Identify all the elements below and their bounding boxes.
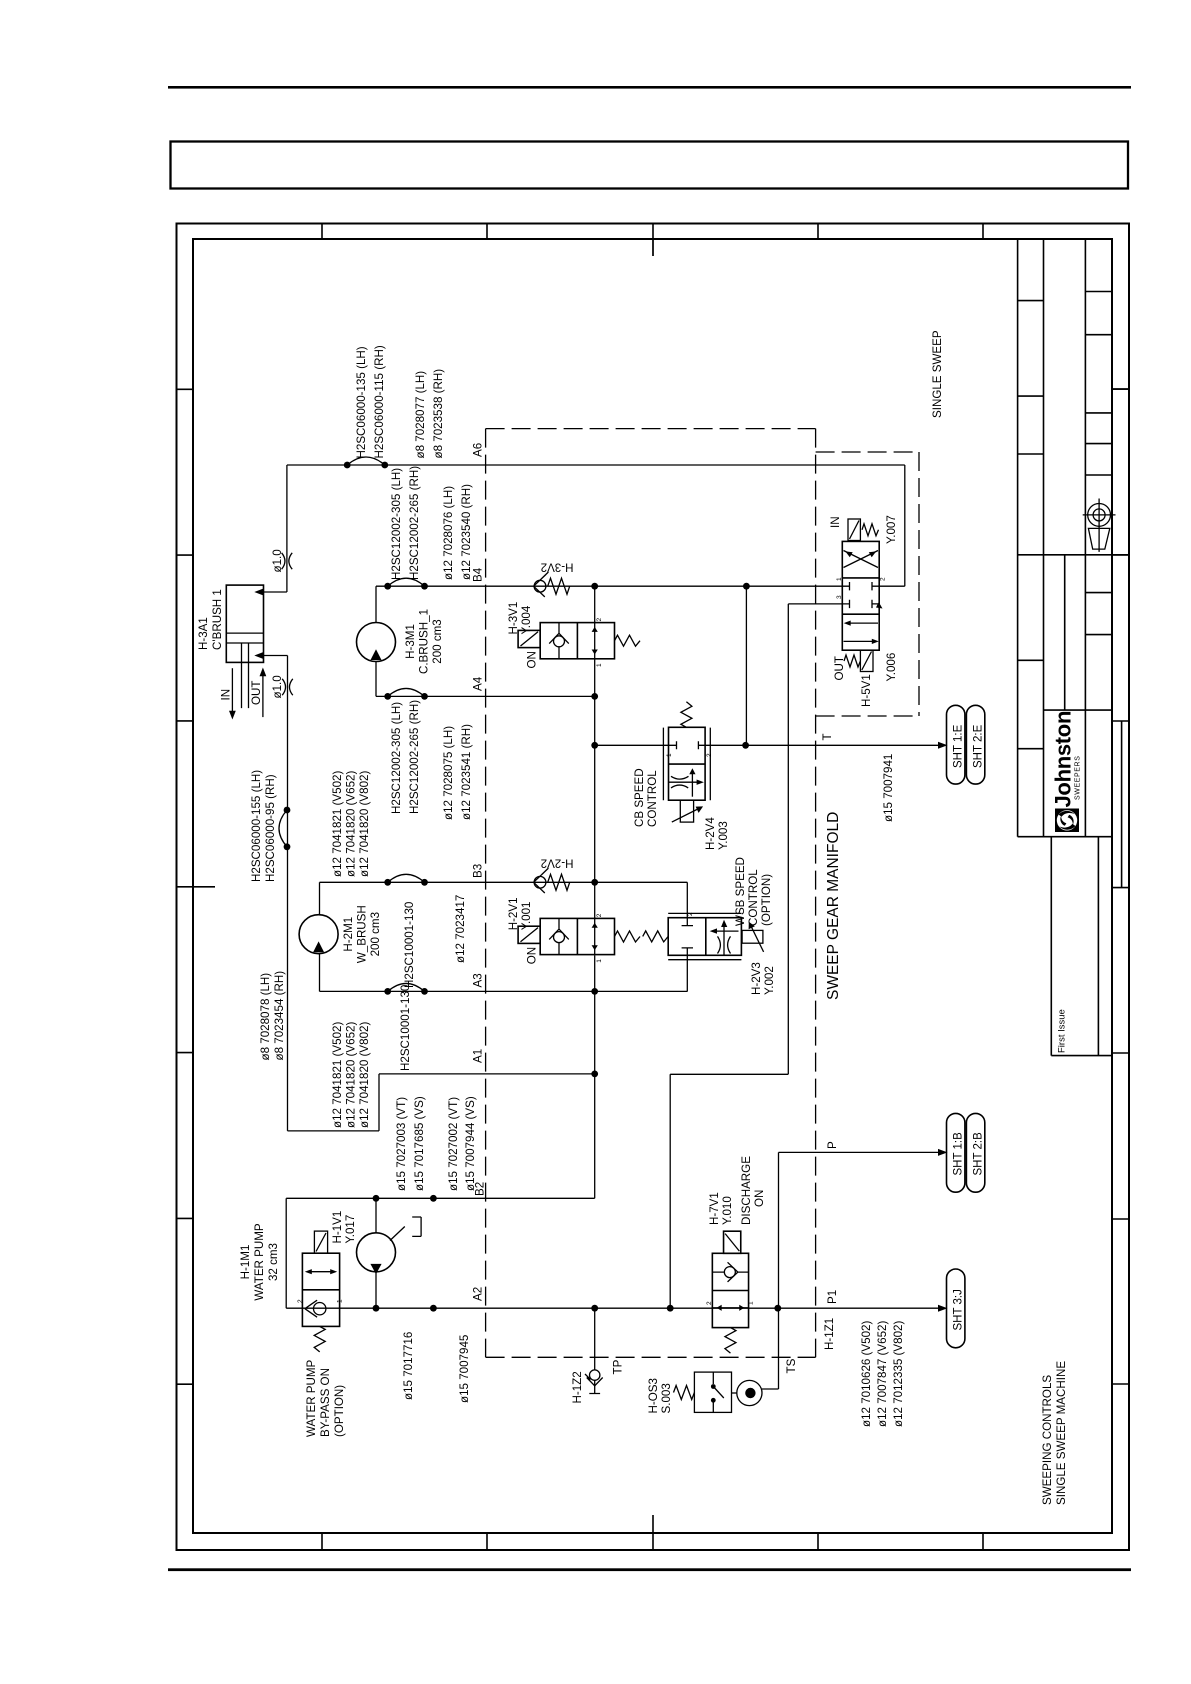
title block column lines [1018,239,1086,837]
svg-text:ø12 7041820 (V652): ø12 7041820 (V652) [345,771,358,877]
valve H-5V1 parallel arrows section [846,622,878,624]
svg-text:H2SC10001-130: H2SC10001-130 [403,902,416,988]
svg-text:CONTROL: CONTROL [747,869,760,926]
frame centering ticks top edge [322,224,983,257]
node P1 junction feed [667,1305,674,1312]
sheet ref SHT 2:B [966,1113,984,1192]
svg-text:IN: IN [220,689,233,701]
svg-text:H-1V1: H-1V1 [331,1211,344,1244]
svg-text:WSB SPEED: WSB SPEED [734,857,747,926]
svg-text:H2SC10001-130: H2SC10001-130 [399,985,412,1071]
wire A4 row [376,695,595,697]
svg-text:Y.001: Y.001 [520,901,533,930]
svg-text:H-2V1: H-2V1 [507,897,520,930]
valve H-5V1 pilot spring bottom [844,655,860,667]
wire main vertical H-2V1 to A1 [594,955,596,1074]
svg-text:ø15 7007945: ø15 7007945 [458,1335,471,1403]
svg-text:ø12 7010626 (V502): ø12 7010626 (V502) [860,1321,873,1427]
sheet ref SHT 3:J [947,1269,965,1348]
svg-text:H-5V1: H-5V1 [860,674,873,707]
wire H-5V1 port A to P1 [670,604,842,1308]
motor H-2M1 [299,915,338,954]
svg-text:B3: B3 [472,864,485,878]
svg-text:SINGLE SWEEP MACHINE: SINGLE SWEEP MACHINE [1055,1361,1068,1505]
title block bottom edge [1018,836,1112,838]
manifold dashed box 2 (H-5V1 block) [816,452,919,716]
orifice cylinder IN [282,553,293,569]
svg-text:ø8 7028078 (LH): ø8 7028078 (LH) [259,973,272,1061]
svg-text:SWEEP GEAR MANIFOLD: SWEEP GEAR MANIFOLD [825,812,842,1000]
cylinder H-3A1 body [226,585,263,662]
svg-text:ON: ON [753,1190,766,1207]
svg-text:2: 2 [706,753,713,757]
svg-text:W_BRUSH: W_BRUSH [356,905,369,963]
title block major divider [1018,554,1129,556]
svg-text:C'BRUSH 1: C'BRUSH 1 [211,589,224,650]
wire branch B4 to T row [745,586,747,745]
svg-text:ø12 7041820 (V652): ø12 7041820 (V652) [345,1022,358,1128]
svg-text:H-3V2: H-3V2 [541,561,574,574]
OUT arrow [262,674,264,717]
valve H-7V1 discharge [712,1231,748,1353]
wire cylinder OUT line [264,656,379,1131]
cylinder port arrow top [254,588,263,595]
pump H-1M1 [357,1233,396,1274]
svg-text:Y.006: Y.006 [885,653,898,682]
svg-text:DISCHARGE: DISCHARGE [740,1156,753,1225]
svg-text:H2SC06000-115 (RH): H2SC06000-115 (RH) [373,345,386,458]
svg-text:H-2V4: H-2V4 [704,817,717,850]
svg-text:H-1M1: H-1M1 [239,1245,252,1280]
valve H-2V4 flow control symbol [691,772,693,797]
cylinder piston [226,633,263,643]
pump H-1M1 wire bottom [375,1272,377,1308]
svg-text:H2SC06000-135 (LH): H2SC06000-135 (LH) [355,346,368,458]
svg-text:A6: A6 [472,443,485,457]
valve H-2V4 closed position ports [669,741,706,749]
svg-text:ø15 7027003 (VT): ø15 7027003 (VT) [395,1097,408,1191]
svg-text:ø15 7007944 (VS): ø15 7007944 (VS) [464,1096,477,1191]
svg-text:H-2M1: H-2M1 [342,917,355,952]
svg-text:A2: A2 [472,1287,485,1301]
svg-text:ø1.0: ø1.0 [271,549,284,572]
wire W brush motor bottom [319,954,321,992]
svg-text:ø15 7017685 (VS): ø15 7017685 (VS) [413,1096,426,1191]
pump H-1M1 wire top [375,1198,377,1233]
node B3 [591,879,598,886]
svg-text:H-OS3: H-OS3 [647,1378,660,1413]
svg-text:2: 2 [687,912,694,916]
svg-text:S.003: S.003 [660,1383,673,1413]
outer drawing frame [177,224,1130,1551]
svg-text:H-7V1: H-7V1 [708,1192,721,1225]
node P1 junction TS [774,1305,781,1312]
svg-text:ø15 7007941: ø15 7007941 [882,754,895,822]
svg-text:3: 3 [836,595,843,599]
right margin microfilm column [1121,721,1123,888]
wire TS branch [762,1308,779,1389]
svg-text:SHT 2:E: SHT 2:E [972,724,984,768]
wire B2 row [286,1197,595,1199]
valve H-5V1 pilot solenoid top [848,519,860,541]
wire A6 row [287,464,905,466]
valve H-2V4 body [669,727,706,800]
node A4 [591,693,598,700]
svg-text:A4: A4 [472,676,485,691]
valve H-2V4 adjuster [680,800,693,822]
wire cylinder IN line [264,465,287,592]
node T junction [591,742,598,749]
node B4 branch to T [743,583,750,590]
svg-text:A1: A1 [472,1049,485,1063]
svg-text:2: 2 [706,1301,713,1305]
svg-text:ø12 7023417: ø12 7023417 [454,895,467,963]
valve H-2V3 body [668,918,741,956]
svg-text:(OPTION): (OPTION) [333,1385,346,1437]
empty header title box [171,142,1129,189]
svg-text:Y.007: Y.007 [885,515,898,544]
svg-text:ø12 7041821 (V502): ø12 7041821 (V502) [331,771,344,877]
svg-text:ø12 7007847 (V652): ø12 7007847 (V652) [876,1321,889,1427]
svg-text:ø12 7023541 (RH): ø12 7023541 (RH) [460,724,473,820]
svg-text:32 cm3: 32 cm3 [267,1243,280,1281]
svg-text:1: 1 [596,959,603,963]
wire B4 row [376,585,842,587]
title block row lines col1 [1018,301,1044,749]
frame centering ticks right edge [1112,389,1129,1384]
svg-text:P: P [826,1141,839,1149]
wire main vertical B4 to H-3V1 [594,586,596,622]
manifold dashed box SWEEP GEAR MANIFOLD [486,429,816,1358]
page top rule [168,86,1131,89]
motor H-3M1 [357,623,396,662]
svg-text:ø8 7023454 (RH): ø8 7023454 (RH) [273,971,286,1061]
svg-text:BY-PASS ON: BY-PASS ON [319,1368,332,1437]
svg-text:200 cm3: 200 cm3 [431,619,444,663]
svg-text:1: 1 [836,577,843,581]
svg-text:H2SC06000-95 (RH): H2SC06000-95 (RH) [264,774,277,882]
title block margin row [1112,388,1129,390]
valve H-5V1 pilot solenoid bottom [860,650,873,671]
svg-text:ø12 7028076 (LH): ø12 7028076 (LH) [442,486,455,580]
wire main vertical H-3V1 to H-2V1 [594,659,596,919]
valve H-1V1 check cell [314,1303,326,1315]
svg-text:200 cm3: 200 cm3 [369,912,382,956]
valve H-2V3 closed position ports [682,918,693,956]
page bottom rule [168,1568,1131,1571]
svg-text:2: 2 [596,913,603,917]
svg-text:ON: ON [526,651,539,668]
svg-text:Y.003: Y.003 [717,821,730,850]
wire A1 row [379,1073,595,1075]
svg-text:ø15 7017716: ø15 7017716 [402,1332,415,1400]
valve H-5V1 body [842,541,879,650]
wire W brush motor top [319,882,321,914]
first issue strip [1051,837,1112,1056]
wire T row [595,744,939,746]
valve H-2V3 flow control symbol [723,924,725,956]
svg-text:OUT: OUT [833,656,846,680]
valve H-1V1 spring [314,1326,325,1352]
wire A3 row [320,990,688,992]
svg-text:Y.017: Y.017 [344,1215,357,1244]
svg-text:SWEEPING CONTROLS: SWEEPING CONTROLS [1041,1375,1054,1505]
sheet ref SHT 2:E [966,705,984,784]
node A1 [591,1071,598,1078]
svg-text:ø15 7027002 (VT): ø15 7027002 (VT) [447,1097,460,1191]
svg-text:ø1.0: ø1.0 [271,675,284,698]
pump drive shaft [390,1217,421,1241]
valve H-2V4 spring [681,702,692,728]
wire P line [779,1152,940,1308]
indicator circle [737,1380,762,1405]
valve H-2V3 envelope rails [668,913,741,959]
Johnston logo [1051,711,1082,832]
hose B4 row [384,578,428,589]
valve H-5V1 pilot spring top [862,524,879,536]
svg-text:B4: B4 [472,567,485,582]
svg-text:T: T [821,733,834,740]
wire B3 row [320,881,688,883]
valve H-2V3 WSB speed control branch wire top [686,882,688,917]
frame centering ticks left edge [177,389,216,1384]
valve H-2V4 CB speed control envelope rails [663,728,710,801]
sheet ref SHT 1:E [947,705,965,784]
svg-text:2: 2 [880,577,887,581]
svg-text:ON: ON [526,947,539,964]
svg-text:H2SC06000-155 (LH): H2SC06000-155 (LH) [250,770,263,882]
svg-text:SHT 2:B: SHT 2:B [972,1132,984,1176]
svg-text:IN: IN [829,516,842,528]
svg-text:H-3M1: H-3M1 [404,624,417,659]
svg-text:SWEEPERS: SWEEPERS [1075,756,1082,800]
svg-text:ø8 7028077 (LH): ø8 7028077 (LH) [414,371,427,459]
IN arrow [231,668,233,712]
wire A2 P1 row [286,1307,939,1309]
title block row lines col3 [1085,292,1112,635]
svg-text:TS: TS [785,1358,798,1373]
pressure switch contacts [712,1372,714,1412]
valve H-2V3 WSB speed control branch wire bottom [686,955,688,991]
valve H-1V1 solenoid [314,1231,327,1253]
svg-text:H-1Z2: H-1Z2 [571,1371,584,1403]
svg-text:H2SC12002-305 (LH): H2SC12002-305 (LH) [390,468,403,580]
check valve H-3V2 [534,572,570,597]
pressure switch H-OS3 box [694,1372,731,1412]
svg-text:ø12 7041820 (V802): ø12 7041820 (V802) [358,1022,371,1128]
hose A3 row [384,983,428,994]
port arrow H-5V1 [876,602,883,609]
top center tick extension [652,240,654,256]
svg-text:ø8 7023538 (RH): ø8 7023538 (RH) [432,369,445,459]
svg-text:CONTROL: CONTROL [646,770,659,827]
orifice cylinder OUT [282,679,293,695]
pressure switch spring [674,1386,695,1400]
svg-text:WATER PUMP: WATER PUMP [305,1359,318,1437]
svg-text:1: 1 [596,663,603,667]
svg-text:H2SC12002-265 (RH): H2SC12002-265 (RH) [408,466,421,580]
first angle projection symbol [1083,499,1116,552]
svg-text:TP: TP [612,1359,625,1374]
svg-text:ø12 7023540 (RH): ø12 7023540 (RH) [460,484,473,580]
inner drawing frame [193,239,1112,1533]
arrow P1 to sheet ref [938,1305,948,1312]
arrow T to sheet refs [938,742,948,749]
svg-text:1: 1 [337,1299,344,1303]
wire A6 to H-5V1 port B [879,465,905,586]
logo cell top edge [1044,709,1113,711]
svg-text:2: 2 [596,618,603,622]
wire H-1Z2 branch [594,1308,596,1370]
svg-text:OUT: OUT [250,681,263,705]
arrow P to sheet refs [938,1149,948,1156]
svg-text:CB SPEED: CB SPEED [633,768,646,827]
svg-text:Johnston: Johnston [1051,711,1076,808]
svg-text:H-3A1: H-3A1 [197,617,210,650]
wire C brush motor top [375,586,377,622]
svg-text:WATER PUMP: WATER PUMP [253,1223,266,1301]
node A2 pump port [373,1305,380,1312]
svg-text:(OPTION): (OPTION) [760,874,773,926]
svg-text:SINGLE SWEEP: SINGLE SWEEP [931,330,944,418]
svg-text:H-2V2: H-2V2 [541,857,574,870]
valve H-5V1 ports section [842,582,879,608]
svg-text:C.BRUSH_1: C.BRUSH_1 [418,609,431,674]
svg-text:First Issue: First Issue [1057,1009,1068,1053]
wire B2 to A2 left link [285,1198,287,1308]
svg-text:ø12 7041821 (V502): ø12 7041821 (V502) [331,1022,344,1128]
svg-text:SHT 1:E: SHT 1:E [953,724,965,768]
svg-text:2: 2 [297,1299,304,1303]
valve H-2V3 adjuster [742,930,763,943]
svg-text:H-3V1: H-3V1 [507,602,520,635]
node A3 [591,988,598,995]
svg-text:P1: P1 [826,1290,839,1304]
svg-text:Y.010: Y.010 [721,1196,734,1225]
svg-text:H-1Z1: H-1Z1 [823,1318,836,1350]
svg-text:SHT 1:B: SHT 1:B [953,1132,965,1176]
svg-text:SHT 3:J: SHT 3:J [953,1289,965,1330]
node P1 junction H-1Z2 [591,1305,598,1312]
svg-text:H-2V3: H-2V3 [750,962,763,995]
node A2 hose end [430,1305,437,1312]
svg-text:Y.002: Y.002 [763,966,776,995]
valve H-5V1 crossed arrows section [844,551,879,568]
svg-text:A3: A3 [472,973,485,987]
node B2 hose end [430,1195,437,1202]
node T at CB valve outlet [742,742,749,749]
svg-text:1: 1 [666,753,673,757]
hose A6 row [344,457,388,468]
cylinder rod [242,643,249,708]
svg-text:ø12 7012335 (V802): ø12 7012335 (V802) [892,1321,905,1427]
hose on OUT line [279,807,290,851]
sheet ref SHT 1:B [947,1113,965,1192]
valve H-2V1 [518,918,640,954]
node B4/junction [591,583,598,590]
svg-text:H2SC12002-265 (RH): H2SC12002-265 (RH) [408,700,421,814]
valve H-3V1 [518,623,640,659]
svg-text:1: 1 [748,1301,755,1305]
valve H-2V3 spring [643,931,669,942]
frame centering ticks bottom edge [322,1515,983,1550]
node B2 pump port [373,1195,380,1202]
svg-text:ø12 7041820 (V802): ø12 7041820 (V802) [358,771,371,877]
svg-text:Y.004: Y.004 [520,605,533,634]
svg-text:H2SC12002-305 (LH): H2SC12002-305 (LH) [390,702,403,814]
cylinder port arrow bottom [254,652,263,659]
check valve H-2V2 [534,868,570,893]
hose A4 row [384,688,428,699]
svg-text:ø12 7028075 (LH): ø12 7028075 (LH) [442,726,455,820]
wire A1 to B2 vertical [594,1074,596,1198]
valve H-1V1 double arrow cell [308,1271,335,1273]
test point H-1Z2 [590,1370,600,1380]
valve H-1V1 body [302,1253,339,1326]
hose B3 row [384,874,428,885]
wire C brush motor bottom [375,662,377,697]
